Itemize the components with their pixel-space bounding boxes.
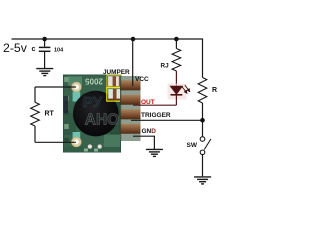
wire capacitor bottom lead <box>44 51 46 68</box>
wire top power rail <box>12 38 203 40</box>
module small hole 2 <box>97 144 102 149</box>
module teal trace upper <box>73 92 81 102</box>
module mounting hole top-left <box>71 82 81 92</box>
wire TRIGGER net <box>131 119 203 121</box>
ground (module GND) <box>146 149 163 156</box>
wire RJ top lead <box>175 39 177 49</box>
module pad column background <box>120 76 141 141</box>
wire R bottom to trigger junction <box>202 103 204 137</box>
ground (capacitor) <box>36 69 53 76</box>
module SMD pair upper <box>108 76 120 86</box>
svg-text:2005: 2005 <box>85 76 103 85</box>
svg-text:SW: SW <box>187 142 198 149</box>
svg-text:RT: RT <box>45 111 55 118</box>
svg-text:c: c <box>32 46 36 53</box>
wire rail corner to R <box>202 38 204 77</box>
LED glow <box>168 84 187 100</box>
svg-text:VCC: VCC <box>135 76 149 83</box>
module watermark dark bar <box>64 96 69 113</box>
capacitor C 104 <box>39 47 51 51</box>
svg-text:R: R <box>212 87 217 94</box>
module small hole 1 <box>88 144 93 149</box>
wire capacitor top lead <box>44 39 46 47</box>
junction TRIGGER node <box>200 118 205 123</box>
module pad column edge shadow <box>120 76 121 141</box>
wire RT top (module hole to left) <box>35 86 76 88</box>
upper highlight box <box>107 75 122 87</box>
svg-text:P1: P1 <box>99 94 105 99</box>
module jumper component <box>108 89 122 100</box>
switch SW <box>200 137 211 155</box>
svg-text:2-5v: 2-5v <box>3 41 28 55</box>
resistor RT <box>31 102 40 126</box>
wire RJ to LED anode <box>175 71 177 86</box>
wire VCC drop to module <box>132 39 134 86</box>
LED D1 <box>171 86 183 95</box>
svg-text:RJ: RJ <box>161 63 170 70</box>
module teal trace lower <box>73 132 81 139</box>
wire switch to ground <box>202 155 204 177</box>
wire RT bottom (to module hole) <box>35 141 76 143</box>
junction VCC node <box>131 37 136 42</box>
module pad VCC <box>120 80 141 90</box>
svg-text:GND: GND <box>142 128 157 135</box>
junction RJ node <box>174 37 179 42</box>
wire GND net <box>133 136 154 149</box>
ground (switch) <box>194 177 211 184</box>
svg-text:JUMPER: JUMPER <box>103 69 130 76</box>
wire RT left vertical top <box>34 87 36 102</box>
wire OUT net <box>133 104 176 106</box>
module mounting hole bottom-left <box>71 137 81 147</box>
module PCB board photo <box>64 75 121 152</box>
resistor R <box>198 78 207 104</box>
svg-text:OUT: OUT <box>141 99 155 106</box>
module black blob chip <box>73 91 119 137</box>
module pad 4 <box>120 124 141 134</box>
svg-text:104: 104 <box>54 48 64 54</box>
resistor RJ <box>172 49 181 72</box>
svg-text:АНО: АНО <box>85 112 119 129</box>
svg-text:TRIGGER: TRIGGER <box>141 112 171 119</box>
wire LED cathode to OUT <box>175 96 177 106</box>
LED emission arrows <box>182 85 190 93</box>
module pad TRIGGER <box>120 109 141 119</box>
junction capacitor node <box>42 37 47 42</box>
jumper highlight box <box>107 88 125 101</box>
wire RT left vertical bottom <box>34 126 36 142</box>
module pad OUT <box>120 95 141 105</box>
